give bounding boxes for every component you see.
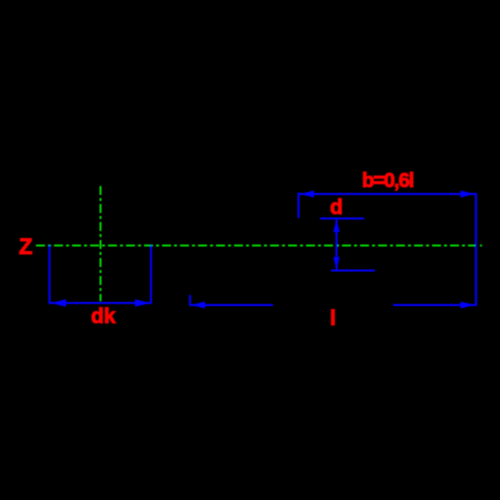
svg-text:b=0,6l: b=0,6l (362, 170, 414, 192)
dimension line: b (299, 193, 477, 195)
dimension line: l right segment (393, 304, 476, 306)
arrow: dk right (135, 299, 151, 307)
centerline: horizontal axis Z (dash-dot) (36, 245, 482, 247)
arrow: l left (191, 302, 205, 309)
dimension line: dk (50, 302, 151, 304)
extension line: dk left (49, 245, 51, 304)
extension line: b left (298, 193, 300, 219)
extension line: dk right (150, 245, 152, 304)
extension tick: l left (189, 295, 191, 306)
svg-text:d: d (330, 196, 343, 219)
arrow: l right (461, 302, 475, 309)
dimension line: d vertical (336, 219, 338, 270)
arrow: d up (333, 220, 339, 233)
svg-text:Z: Z (19, 234, 32, 259)
outline: d top line (320, 218, 364, 220)
outline: d bottom line (331, 270, 375, 272)
dimension line: l left segment (190, 304, 273, 306)
svg-text:l: l (330, 307, 336, 330)
arrow: dk left (51, 299, 67, 307)
extension line: right shared (b and l) (475, 193, 477, 306)
svg-text:dk: dk (91, 305, 116, 328)
arrow: b right (461, 191, 475, 198)
centerline: vertical axis of head (dash-dot) (100, 186, 102, 301)
arrow: d down (333, 257, 339, 270)
arrow: b left (300, 191, 314, 198)
